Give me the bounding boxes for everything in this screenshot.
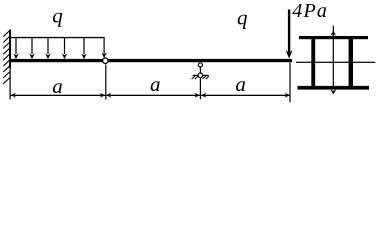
beam <box>9 59 292 62</box>
dimension arrows <box>11 93 290 98</box>
distributed load top line <box>10 37 105 38</box>
svg-text:4Pa: 4Pa <box>292 0 328 22</box>
hinge circle <box>103 58 108 63</box>
cross-section right web <box>349 36 353 89</box>
pin support hatching <box>192 76 209 79</box>
svg-text:a: a <box>150 72 161 96</box>
dimension extension line at beam end <box>289 63 290 103</box>
pin support lower circle <box>198 73 203 78</box>
dimension extension line at wall <box>10 68 11 100</box>
svg-text:q: q <box>237 5 248 29</box>
cross-section left web <box>311 36 315 89</box>
dimension line <box>10 95 290 96</box>
dimension extension line at pin <box>200 78 201 100</box>
dimension extension line at hinge <box>105 65 106 100</box>
force arrow 4Pa <box>288 10 290 53</box>
pin support ground line <box>193 75 209 76</box>
fixed support hatching <box>3 30 10 84</box>
section vertical centerline <box>333 26 334 90</box>
cross-section bottom flange <box>298 86 370 90</box>
svg-text:a: a <box>235 72 246 96</box>
pin support rod <box>200 67 201 74</box>
distributed load arrows q <box>13 38 106 60</box>
cross-section top flange <box>299 36 368 39</box>
svg-text:a: a <box>52 74 63 98</box>
fixed support wall line <box>9 30 11 69</box>
pin support: upper circle <box>198 63 202 67</box>
svg-text:q: q <box>52 3 63 27</box>
section horizontal centerline <box>296 62 375 63</box>
